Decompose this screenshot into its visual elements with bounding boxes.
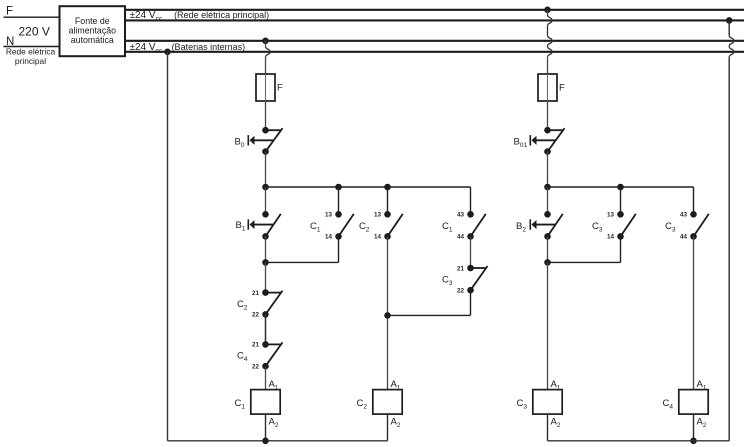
wire C4-22 to coil C1 [265, 366, 267, 389]
wire branch node to B1 [265, 187, 267, 214]
svg-text:13: 13 [607, 212, 615, 219]
bus line 4 (+24Vcc baterias, bottom) [125, 51, 744, 53]
wire coil C4 to bottom rail [693, 414, 695, 441]
wire left rail (bus 4 down to bottom rail) [167, 52, 169, 441]
NC contact C4 21/22 [237, 341, 283, 370]
svg-text:14: 14 [607, 234, 615, 241]
auxiliary NO contact C2 13/14 [359, 211, 403, 241]
svg-text:43: 43 [680, 212, 688, 219]
svg-text:Rede elétrica: Rede elétrica [6, 47, 56, 57]
pushbutton NC contact B0 [235, 127, 283, 155]
junction bus1 to circuit 3 rail [544, 7, 551, 14]
svg-text:22: 22 [457, 288, 465, 295]
contactor coil C4 [663, 379, 709, 429]
svg-text:21: 21 [252, 290, 260, 297]
wire bus3 down to hop [265, 41, 267, 47]
junction coil C1 bottom rail [262, 438, 269, 445]
label +-24 Vcc (Baterias internas) [130, 42, 246, 55]
svg-text:13: 13 [374, 212, 382, 219]
svg-text:alimentação: alimentação [69, 26, 117, 36]
svg-text:F: F [6, 6, 13, 18]
contactor coil C1 [235, 379, 281, 429]
wire hop over bus4 at right rail [729, 46, 734, 57]
pushbutton NO contact B2 [516, 211, 563, 240]
wire hop over bus3 at right rail [729, 35, 734, 46]
NC contact C2 21/22 [237, 289, 283, 318]
wire seal node to C2-21 [265, 262, 267, 292]
wire branch to C2-13 [387, 187, 389, 214]
wire right rail down to bottom rail [728, 57, 730, 441]
svg-text:14: 14 [325, 234, 333, 241]
node branch circuit3 [544, 184, 551, 191]
auxiliary NO contact C3 43/44 [665, 211, 709, 241]
wire between hops circuit3 [547, 26, 549, 35]
svg-text:22: 22 [252, 312, 260, 319]
contactor coil C2 [357, 379, 403, 429]
svg-text:43: 43 [457, 212, 465, 219]
wire C2-22 to C4-21 [265, 314, 267, 344]
wire hop over bus3 at circuit3 rail [548, 35, 553, 46]
bus line 3 (+24Vcc baterias, top) [125, 40, 744, 42]
junction C3-13 branch [617, 184, 624, 191]
wire branch line circuit1 [266, 186, 471, 188]
wire hop over bus4 at circuit3 rail [548, 46, 553, 57]
junction bus4 to left rail [164, 49, 171, 56]
node seal-in circuit1 [262, 259, 269, 266]
svg-text:13: 13 [325, 212, 333, 219]
wire phase F to power supply [4, 16, 60, 18]
wire hop over bus4 at circuit1 rail [266, 46, 271, 57]
node seal-in circuit3 [544, 259, 551, 266]
svg-text:220 V: 220 V [19, 24, 50, 38]
wire neutral N to power supply [4, 46, 60, 48]
wire coil C1 to bottom rail [265, 414, 267, 441]
auxiliary NO contact C1 43/44 [442, 211, 486, 241]
wire bus2 down to hop over bus3 [728, 20, 730, 35]
wire hop to fuse F2 [547, 57, 549, 74]
wire hop to fuse F1 [265, 57, 267, 74]
wire seal line C1 (node to contact C1-14) [266, 236, 339, 262]
svg-text:Fonte de: Fonte de [75, 16, 110, 26]
pushbutton NO contact B1 [236, 211, 281, 240]
neutral terminal label N [6, 36, 14, 48]
svg-text:F: F [277, 83, 283, 94]
bus line 1 (+24Vcc rede eletrica, top) [125, 9, 744, 11]
junction C2 rail with interlock link [384, 312, 391, 319]
wire hop over bus2 at circuit3 rail [548, 15, 553, 26]
junction C2-13 branch [384, 184, 391, 191]
wire B2 to seal node [547, 236, 549, 262]
junction C1-13 branch [335, 184, 342, 191]
wire branch down to C3-43 [693, 187, 695, 214]
wire bus1 down to hop over bus2 [547, 10, 549, 15]
wire B0 to branch node [265, 152, 267, 187]
svg-text:automática: automática [71, 35, 114, 45]
junction coil C4 bottom rail [690, 438, 697, 445]
wire coil C3 to bottom rail [547, 414, 549, 441]
svg-text:21: 21 [457, 265, 465, 272]
svg-text:principal: principal [15, 56, 46, 66]
wire branch line circuit3 [548, 186, 694, 188]
wire fuse F1 to contact B0 [265, 101, 267, 130]
svg-text:21: 21 [252, 342, 260, 349]
wire branch to C3-13 [620, 187, 622, 214]
pushbutton NC contact B01 [514, 127, 565, 155]
junction bus3 to circuit 1 rail [262, 38, 269, 45]
fuse F (circuit 3) [538, 74, 565, 101]
svg-text:14: 14 [374, 234, 382, 241]
svg-text:22: 22 [252, 364, 260, 371]
wire branch to C1-13 [338, 187, 340, 214]
wire C1-44 to C3-21 [470, 236, 472, 268]
wire seal line C3 (node to contact C3-14) [548, 236, 621, 262]
wire bottom rail left group [168, 440, 388, 442]
contactor coil C3 [517, 379, 563, 429]
label Rede eletrica principal [6, 47, 56, 67]
wire coil C2 to bottom rail [387, 414, 389, 441]
wire fuse F2 to contact B01 [547, 101, 549, 130]
bus line 2 (+24Vcc rede eletrica, bottom) [125, 19, 744, 21]
auxiliary NO contact C3 13/14 [592, 211, 636, 241]
power supply unit (Fonte de alimentacao automatica) [60, 6, 126, 56]
NC interlock contact C3 21/22 (circuit 2 branch) [442, 265, 488, 295]
node branch circuit1 [262, 184, 269, 191]
wire C3-44 down to coil C4 [693, 236, 695, 389]
label +-24 Vcc (Rede eletrica principal) [130, 10, 270, 23]
wire branch down to C1-43 [470, 187, 472, 214]
wire B1 to seal node [265, 236, 267, 262]
label 220 V [19, 24, 50, 38]
wire C2-14 down to coil C2 [387, 236, 389, 389]
fuse F (circuit 1) [256, 74, 283, 101]
wire branch node to B2 [547, 187, 549, 214]
svg-text:44: 44 [457, 234, 465, 241]
wire C3-22 down and left to C2 rail [388, 290, 471, 315]
auxiliary NO contact C1 13/14 [310, 211, 354, 241]
wire seal node to coil C3 [547, 262, 549, 389]
wire B01 to branch node [547, 152, 549, 187]
svg-text:F: F [559, 83, 565, 94]
phase terminal label F [6, 6, 13, 18]
junction bus2 to right rail [726, 17, 733, 24]
svg-text:44: 44 [680, 234, 688, 241]
wire bottom rail right group [548, 440, 730, 442]
